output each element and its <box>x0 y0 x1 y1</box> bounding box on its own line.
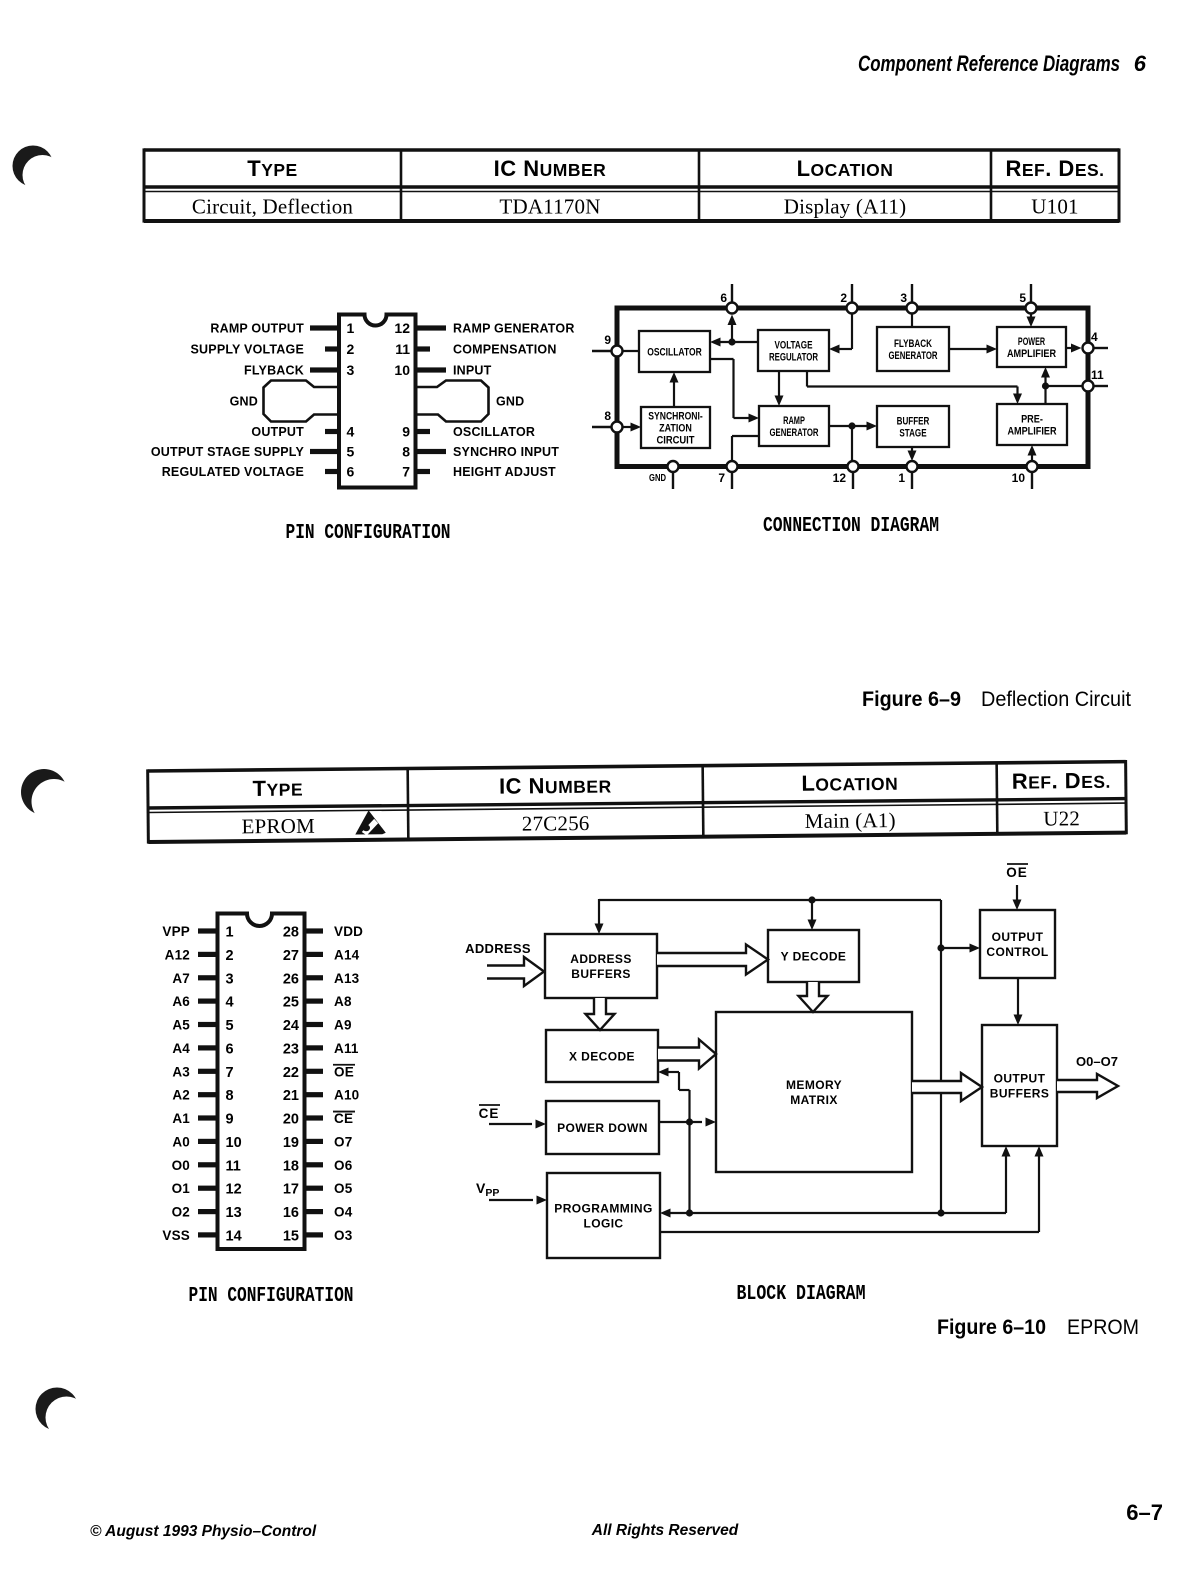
svg-text:12: 12 <box>226 1182 242 1198</box>
svg-text:Figure 6–10: Figure 6–10 <box>937 1315 1046 1339</box>
svg-text:3: 3 <box>347 362 355 378</box>
wire top rail to Y decode <box>808 900 817 930</box>
figure caption 6-9 <box>862 687 1131 711</box>
svg-text:BUFFERS: BUFFERS <box>990 1086 1049 1100</box>
pin 8 SYNCHRO INPUT <box>402 444 559 460</box>
svg-text:BUFFER: BUFFER <box>897 415 930 427</box>
svg-text:GENERATOR: GENERATOR <box>888 350 937 362</box>
node pin 8 (left) <box>592 409 623 433</box>
svg-text:LOCATION: LOCATION <box>801 770 898 796</box>
pin 2 A12 <box>165 947 234 964</box>
svg-text:9: 9 <box>226 1112 234 1128</box>
svg-text:PRE-: PRE- <box>1021 413 1043 425</box>
pin 19 O7 <box>283 1134 353 1151</box>
voltage regulator block <box>758 330 829 371</box>
wire pin2 to voltage regulator <box>829 313 852 354</box>
svg-text:1: 1 <box>347 320 355 336</box>
svg-text:A8: A8 <box>334 994 352 1009</box>
svg-text:27: 27 <box>283 948 299 964</box>
svg-text:TYPE: TYPE <box>247 156 297 181</box>
bus arrow output buffers to O0-O7 <box>1057 1074 1118 1098</box>
node ADDRESS input label <box>465 941 531 956</box>
svg-text:25: 25 <box>283 995 299 1011</box>
svg-text:17: 17 <box>283 1182 299 1198</box>
pin 10 INPUT <box>394 362 491 378</box>
svg-text:GENERATOR: GENERATOR <box>769 427 818 439</box>
svg-text:TDA1170N: TDA1170N <box>499 194 600 218</box>
svg-text:STAGE: STAGE <box>899 427 926 439</box>
svg-text:O1: O1 <box>172 1181 191 1196</box>
svg-text:VSS: VSS <box>162 1228 190 1243</box>
power amplifier block <box>997 327 1066 367</box>
svg-text:OUTPUT STAGE SUPPLY: OUTPUT STAGE SUPPLY <box>151 445 305 459</box>
svg-text:TYPE: TYPE <box>252 776 303 801</box>
node pin 3 (top) <box>900 284 917 314</box>
pin 9 A1 <box>172 1111 233 1128</box>
svg-text:6: 6 <box>347 464 355 480</box>
bus arrow X decode to memory matrix <box>658 1040 716 1069</box>
svg-text:1: 1 <box>226 925 234 941</box>
pin 10 A0 <box>172 1134 241 1151</box>
ramp generator block <box>759 406 829 446</box>
pre-amplifier block <box>997 404 1067 445</box>
svg-text:11: 11 <box>395 341 410 357</box>
svg-text:EPROM: EPROM <box>241 814 315 839</box>
svg-text:21: 21 <box>283 1088 299 1104</box>
svg-text:6–7: 6–7 <box>1126 1500 1163 1525</box>
svg-text:24: 24 <box>283 1018 299 1034</box>
binding mark crescent 3 <box>36 1388 88 1439</box>
svg-text:LOCATION: LOCATION <box>797 156 894 181</box>
ground GND left tab symbol <box>230 381 339 422</box>
wire top rail from address buffers <box>595 899 942 1213</box>
pin 7 HEIGHT ADJUST <box>402 464 556 480</box>
node pin 11 (right) <box>1083 368 1109 392</box>
output control block <box>980 910 1055 978</box>
pin 26 A13 <box>283 971 360 988</box>
svg-text:ADDRESS: ADDRESS <box>570 952 631 966</box>
wire voltage regulator to ramp generator <box>775 371 784 406</box>
caption PIN CONFIGURATION (EPROM) <box>189 1285 354 1308</box>
svg-text:Component Reference Diagrams: Component Reference Diagrams <box>858 51 1120 76</box>
synchronization circuit block <box>641 407 710 448</box>
svg-text:OUTPUT: OUTPUT <box>992 930 1044 944</box>
svg-text:All Rights Reserved: All Rights Reserved <box>591 1522 739 1539</box>
wire voltage regulator to pre-amplifier (long) <box>807 371 1022 404</box>
svg-text:O2: O2 <box>172 1205 190 1220</box>
svg-text:2: 2 <box>226 948 234 964</box>
svg-text:O5: O5 <box>334 1181 353 1196</box>
svg-text:OSCILLATOR: OSCILLATOR <box>453 425 535 439</box>
pin 8 A2 <box>172 1088 233 1105</box>
footer copyright <box>90 1523 317 1540</box>
node pin 6 (top) <box>720 284 737 314</box>
svg-text:AMPLIFIER: AMPLIFIER <box>1007 425 1056 437</box>
pin 1 VPP <box>162 924 233 941</box>
svg-text:13: 13 <box>226 1205 242 1221</box>
svg-text:REF. DES.: REF. DES. <box>1012 768 1111 794</box>
pin 7 A3 <box>172 1064 233 1081</box>
pin 6 A4 <box>172 1041 233 1058</box>
svg-text:REF. DES.: REF. DES. <box>1005 156 1104 181</box>
svg-text:PIN CONFIGURATION: PIN CONFIGURATION <box>286 522 451 545</box>
svg-text:ZATION: ZATION <box>659 422 692 434</box>
svg-text:GND: GND <box>230 395 258 409</box>
svg-text:REGULATOR: REGULATOR <box>769 351 818 363</box>
svg-text:16: 16 <box>283 1205 299 1221</box>
svg-text:GND: GND <box>496 395 524 409</box>
svg-text:POWER DOWN: POWER DOWN <box>557 1121 648 1135</box>
bus arrow address input <box>487 957 544 986</box>
wire rail to output control <box>941 944 980 953</box>
svg-text:4: 4 <box>1091 330 1098 344</box>
svg-text:11: 11 <box>1091 368 1104 382</box>
pin 1 RAMP OUTPUT <box>210 320 354 336</box>
pin 12 O1 <box>172 1181 242 1198</box>
svg-text:A14: A14 <box>334 947 360 962</box>
wire CE to power down <box>489 1120 546 1129</box>
svg-text:8: 8 <box>402 444 410 460</box>
page header: Component Reference Diagrams 6 <box>858 51 1147 76</box>
pin 2 SUPPLY VOLTAGE <box>191 341 355 357</box>
bus arrow address buffers to Y decode <box>657 945 768 975</box>
svg-text:ADDRESS: ADDRESS <box>465 941 531 956</box>
svg-text:7: 7 <box>718 471 725 485</box>
svg-text:MATRIX: MATRIX <box>790 1093 838 1107</box>
svg-text:BLOCK DIAGRAM: BLOCK DIAGRAM <box>737 1283 866 1306</box>
wire synchronization circuit to oscillator <box>670 372 679 407</box>
svg-text:FLYBACK: FLYBACK <box>894 338 932 350</box>
ESD static sensitive symbol <box>355 810 386 835</box>
svg-text:U22: U22 <box>1043 806 1080 830</box>
svg-text:SYNCHRONI-: SYNCHRONI- <box>648 410 703 422</box>
svg-text:11: 11 <box>226 1158 241 1174</box>
svg-text:AMPLIFIER: AMPLIFIER <box>1007 348 1056 360</box>
svg-text:CIRCUIT: CIRCUIT <box>656 434 694 446</box>
svg-text:8: 8 <box>226 1088 234 1104</box>
footer all rights reserved <box>591 1522 739 1539</box>
svg-text:O6: O6 <box>334 1158 353 1173</box>
svg-text:RAMP GENERATOR: RAMP GENERATOR <box>453 322 575 336</box>
pin 3 FLYBACK <box>244 362 354 378</box>
buffer stage block <box>877 406 949 447</box>
pin 3 A7 <box>172 971 233 988</box>
wire oscillator to ramp generator <box>710 359 759 423</box>
pin 21 A10 <box>283 1088 360 1105</box>
svg-text:8: 8 <box>604 409 611 423</box>
node pin 12 (bottom) <box>833 461 859 489</box>
svg-text:LOGIC: LOGIC <box>584 1216 624 1230</box>
wire pin7 to ramp generator lower input <box>732 436 759 461</box>
ground GND right tab symbol <box>416 381 525 422</box>
svg-text:6: 6 <box>1134 51 1147 76</box>
pin 6 REGULATED VOLTAGE <box>162 464 355 480</box>
junction node top rail / Y decode <box>808 896 815 903</box>
svg-text:2: 2 <box>347 341 355 357</box>
svg-text:HEIGHT ADJUST: HEIGHT ADJUST <box>453 465 556 479</box>
svg-text:OE: OE <box>1006 865 1028 880</box>
X decode block <box>546 1030 658 1082</box>
pin 15 O3 <box>283 1228 353 1245</box>
svg-text:Y DECODE: Y DECODE <box>781 949 847 963</box>
svg-text:3: 3 <box>900 291 907 305</box>
junction node rail to output control <box>937 944 944 951</box>
binding mark crescent 2 <box>21 769 77 824</box>
address buffers block <box>545 934 657 998</box>
node VPP input label <box>476 1180 499 1199</box>
pin 22 OE <box>283 1064 355 1081</box>
caption PIN CONFIGURATION (deflection IC) <box>286 522 451 545</box>
oscillator U101a block <box>639 331 710 372</box>
svg-text:23: 23 <box>283 1041 299 1057</box>
svg-text:MEMORY: MEMORY <box>786 1078 842 1092</box>
wire pin8 to synchronization circuit <box>622 423 641 432</box>
pin 28 VDD <box>283 924 363 941</box>
pin 4 OUTPUT <box>251 424 354 440</box>
junction node at pin6 drop <box>728 338 735 345</box>
svg-text:PROGRAMMING: PROGRAMMING <box>554 1201 652 1215</box>
Y decode block <box>768 930 859 982</box>
svg-text:A11: A11 <box>334 1041 359 1056</box>
svg-text:6: 6 <box>226 1041 234 1057</box>
node output O0-O7 label <box>1076 1054 1118 1069</box>
svg-text:BUFFERS: BUFFERS <box>571 967 630 981</box>
svg-text:A5: A5 <box>172 1018 190 1033</box>
svg-text:22: 22 <box>283 1065 299 1081</box>
op-amp U101 DIP-12 package body <box>339 315 416 488</box>
node OE input label <box>1006 864 1028 880</box>
svg-text:IC NUMBER: IC NUMBER <box>499 773 612 799</box>
caption CONNECTION DIAGRAM <box>763 515 939 538</box>
svg-text:3: 3 <box>226 971 234 987</box>
binding mark crescent 1 <box>13 146 63 196</box>
svg-text:SUPPLY VOLTAGE: SUPPLY VOLTAGE <box>191 343 304 357</box>
svg-text:O0–O7: O0–O7 <box>1076 1054 1118 1069</box>
connection diagram outer boundary (IC package) <box>617 308 1088 467</box>
svg-text:A7: A7 <box>172 971 190 986</box>
svg-text:27C256: 27C256 <box>522 811 590 836</box>
bus arrow address buffers to X decode <box>586 998 615 1030</box>
pin 14 VSS <box>162 1228 241 1245</box>
wire power down to memory matrix <box>659 1118 716 1127</box>
pin 23 A11 <box>283 1041 359 1058</box>
wire VPP to programming logic <box>489 1196 547 1205</box>
pin 20 CE <box>283 1111 355 1128</box>
svg-text:O7: O7 <box>334 1134 352 1149</box>
svg-text:INPUT: INPUT <box>453 364 492 378</box>
junction node power down line <box>686 1118 693 1125</box>
svg-text:U101: U101 <box>1031 194 1078 218</box>
power down block <box>546 1101 659 1154</box>
svg-text:CE: CE <box>334 1111 353 1126</box>
svg-text:4: 4 <box>347 424 355 440</box>
node pin 5 (top) <box>1019 284 1036 314</box>
svg-text:10: 10 <box>1012 471 1026 485</box>
svg-text:X DECODE: X DECODE <box>569 1049 635 1063</box>
bus arrow memory matrix to output buffers <box>912 1073 982 1101</box>
svg-text:5: 5 <box>1019 291 1026 305</box>
pin 12 RAMP GENERATOR <box>394 320 574 336</box>
node pin 9 (left) <box>592 333 623 357</box>
svg-text:OSCILLATOR: OSCILLATOR <box>647 346 702 358</box>
node pin 4 (right) <box>1083 330 1109 354</box>
wire flyback generator to power amplifier <box>949 345 997 354</box>
node pin 7 (bottom) <box>718 461 737 489</box>
svg-text:A12: A12 <box>165 947 190 962</box>
node pin 1 (bottom) <box>898 461 917 489</box>
svg-text:COMPENSATION: COMPENSATION <box>453 343 557 357</box>
svg-text:A0: A0 <box>172 1134 190 1149</box>
wire ramp generator to buffer stage <box>829 422 877 431</box>
svg-text:10: 10 <box>226 1135 242 1151</box>
wire pin3 to flyback generator <box>911 313 913 327</box>
svg-text:18: 18 <box>283 1158 299 1174</box>
pin 5 A5 <box>172 1018 233 1035</box>
svg-text:POWER: POWER <box>1018 336 1045 348</box>
footer page number 6-7 <box>1126 1500 1163 1525</box>
svg-text:7: 7 <box>226 1065 234 1081</box>
output buffers block <box>982 1025 1057 1146</box>
svg-text:A10: A10 <box>334 1088 359 1103</box>
bus arrow Y decode to memory matrix <box>799 982 828 1012</box>
EPROM U22 DIP-28 package body <box>218 914 305 1250</box>
junction node line A / feedback <box>686 1209 693 1216</box>
svg-text:12: 12 <box>833 471 847 485</box>
node CE input label <box>479 1105 500 1121</box>
svg-text:5: 5 <box>226 1018 234 1034</box>
svg-text:Display (A11): Display (A11) <box>784 194 907 218</box>
svg-text:10: 10 <box>394 362 410 378</box>
svg-text:9: 9 <box>402 424 410 440</box>
table: deflection circuit IC reference (TDA1170N U101) <box>144 148 1119 222</box>
svg-text:REGULATED VOLTAGE: REGULATED VOLTAGE <box>162 465 304 479</box>
svg-text:Main (A1): Main (A1) <box>805 808 896 833</box>
pin 16 O4 <box>283 1205 353 1222</box>
svg-text:O3: O3 <box>334 1228 353 1243</box>
svg-text:5: 5 <box>347 444 355 460</box>
wire feedback to X decode (jog) <box>658 1068 690 1214</box>
svg-text:OUTPUT: OUTPUT <box>251 425 304 439</box>
svg-text:Circuit, Deflection: Circuit, Deflection <box>192 194 354 218</box>
pin 9 OSCILLATOR <box>402 424 535 440</box>
svg-text:14: 14 <box>226 1228 242 1244</box>
svg-text:OE: OE <box>334 1064 354 1079</box>
svg-text:28: 28 <box>283 925 299 941</box>
wire output control to output buffers <box>1014 978 1023 1025</box>
wire junction up to pin 6 <box>728 315 737 343</box>
memory matrix block <box>716 1012 912 1172</box>
svg-text:1: 1 <box>898 471 905 485</box>
node pin 2 (top) <box>840 284 857 314</box>
svg-text:A2: A2 <box>172 1088 190 1103</box>
svg-text:26: 26 <box>283 971 299 987</box>
svg-text:RAMP: RAMP <box>783 415 805 427</box>
junction node line A / rail <box>937 1209 944 1216</box>
wire pin10 to pre-amplifier <box>1028 445 1037 461</box>
pin 11 COMPENSATION <box>395 341 556 357</box>
wire voltage regulator to oscillator <box>710 338 758 347</box>
wire pin5 to power amplifier <box>1027 313 1036 327</box>
svg-text:© August 1993 Physio–Control: © August 1993 Physio–Control <box>90 1523 317 1540</box>
wire junction down to pre-amplifier <box>1044 386 1046 404</box>
svg-text:A6: A6 <box>172 994 190 1009</box>
table: EPROM IC reference (27C256 U22) <box>148 760 1127 844</box>
svg-text:VPP: VPP <box>162 924 190 939</box>
pin 27 A14 <box>283 947 360 964</box>
svg-text:PIN CONFIGURATION: PIN CONFIGURATION <box>189 1285 354 1308</box>
svg-text:9: 9 <box>604 333 611 347</box>
svg-text:7: 7 <box>402 464 410 480</box>
svg-text:Figure 6–9: Figure 6–9 <box>862 687 961 711</box>
pin 24 A9 <box>283 1018 352 1035</box>
svg-text:A3: A3 <box>172 1064 190 1079</box>
svg-text:12: 12 <box>394 320 410 336</box>
flyback generator block <box>877 327 949 371</box>
figure caption 6-10 <box>937 1315 1139 1339</box>
svg-text:CONTROL: CONTROL <box>986 945 1048 959</box>
pin 17 O5 <box>283 1181 353 1198</box>
svg-text:4: 4 <box>226 995 234 1011</box>
svg-text:CE: CE <box>479 1106 500 1121</box>
wire power amplifier to pin4 <box>1066 344 1082 353</box>
junction node pin11 branch <box>1042 382 1049 389</box>
svg-text:Deflection Circuit: Deflection Circuit <box>981 687 1131 711</box>
svg-text:O0: O0 <box>172 1158 190 1173</box>
svg-text:A9: A9 <box>334 1018 352 1033</box>
svg-text:RAMP OUTPUT: RAMP OUTPUT <box>210 322 304 336</box>
junction node ramp output <box>848 422 855 429</box>
wire buffer stage to pin1 <box>908 447 917 461</box>
programming logic block <box>547 1173 660 1258</box>
pin 13 O2 <box>172 1205 242 1222</box>
wire pin9 to oscillator <box>622 350 639 352</box>
svg-text:VOLTAGE: VOLTAGE <box>774 339 812 351</box>
svg-text:2: 2 <box>840 291 847 305</box>
svg-text:A4: A4 <box>172 1041 190 1056</box>
svg-text:SYNCHRO INPUT: SYNCHRO INPUT <box>453 445 559 459</box>
wire junction up to power amplifier <box>1041 367 1050 386</box>
node pin 10 (bottom) <box>1012 461 1038 489</box>
wire OE to output control <box>1013 885 1022 910</box>
svg-text:OUTPUT: OUTPUT <box>994 1071 1046 1085</box>
caption BLOCK DIAGRAM <box>737 1283 866 1306</box>
pin 11 O0 <box>172 1158 241 1175</box>
svg-text:IC NUMBER: IC NUMBER <box>494 156 607 181</box>
svg-text:15: 15 <box>283 1228 299 1244</box>
svg-text:VDD: VDD <box>334 924 363 939</box>
svg-text:FLYBACK: FLYBACK <box>244 364 304 378</box>
svg-text:CONNECTION DIAGRAM: CONNECTION DIAGRAM <box>763 515 939 538</box>
svg-text:20: 20 <box>283 1112 299 1128</box>
svg-text:A13: A13 <box>334 971 360 986</box>
wire programming logic to output buffers (line B) <box>660 1146 1044 1232</box>
svg-text:O4: O4 <box>334 1205 353 1220</box>
wire control line A to programming logic <box>660 1146 1011 1218</box>
svg-text:EPROM: EPROM <box>1067 1315 1139 1339</box>
svg-text:A1: A1 <box>172 1111 190 1126</box>
pin 25 A8 <box>283 994 352 1011</box>
node pin GND (bottom) <box>649 461 679 489</box>
pin 4 A6 <box>172 994 233 1011</box>
wire pin11 line <box>1046 385 1083 387</box>
svg-text:19: 19 <box>283 1135 299 1151</box>
svg-text:GND: GND <box>649 473 666 484</box>
pin 5 OUTPUT STAGE SUPPLY <box>151 444 355 460</box>
svg-text:6: 6 <box>720 291 727 305</box>
pin 18 O6 <box>283 1158 353 1175</box>
wire junction to pin12 <box>851 426 853 461</box>
